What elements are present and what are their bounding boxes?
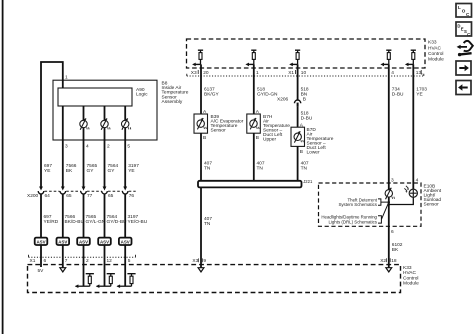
splice sleeve ASV w5	[119, 238, 132, 245]
label B7D	[307, 127, 334, 156]
svg-text:HVAC: HVAC	[403, 270, 417, 276]
svg-text:BN: BN	[301, 91, 308, 97]
label 407 TN (2)	[257, 160, 265, 171]
sensor B39 A/C evaporator temperature sensor	[194, 114, 208, 133]
ground arrow pin7	[60, 268, 66, 272]
bracket headlights DRL	[378, 203, 389, 223]
wire thermistor1 down	[83, 128, 85, 187]
label B8 assembly	[162, 80, 189, 105]
pin labels under B8 box	[65, 144, 130, 150]
connector bracket ticks (top box)	[198, 70, 422, 74]
label E10B	[424, 184, 442, 208]
wire 407 TN (from B39)	[200, 133, 202, 181]
label K33 HVAC control module (top)	[428, 40, 444, 63]
svg-text:2: 2	[86, 258, 89, 264]
svg-text:D-BU: D-BU	[392, 91, 404, 97]
svg-text:J221: J221	[303, 179, 313, 184]
label 518 BN	[301, 86, 309, 97]
svg-text:BK: BK	[66, 168, 73, 174]
connector X200 row	[45, 190, 136, 192]
svg-text:BK/GY: BK/GY	[204, 91, 219, 97]
wire 518 GY/D-GN	[253, 64, 255, 114]
wire pin1 loop to 697 YE	[41, 62, 63, 187]
connector X3 pin 9	[192, 258, 206, 264]
svg-text:X2: X2	[380, 258, 386, 264]
wire 1703 YE	[412, 64, 414, 189]
svg-text:TN: TN	[204, 221, 211, 227]
wire label 697 YE	[44, 163, 52, 174]
wire label 7564 GY	[108, 163, 119, 174]
toolbar icon wiring pointer	[457, 41, 473, 56]
thermistor sensor 2	[101, 118, 110, 129]
X200 terminal w2	[60, 187, 66, 196]
sunload photocell in E10B	[404, 186, 417, 197]
svg-text:X1: X1	[30, 258, 36, 264]
connector X2 pin 18	[380, 258, 397, 264]
svg-text:X206: X206	[277, 97, 289, 103]
wire label 697 YE/RD	[44, 214, 59, 225]
svg-text:1: 1	[256, 70, 259, 76]
svg-text:GY/L-GN: GY/L-GN	[86, 219, 106, 225]
svg-text:76: 76	[129, 193, 135, 199]
svg-text:YE: YE	[128, 168, 134, 174]
pull-down arrow + resistor (pin 12)	[96, 274, 115, 288]
wire to thermistor 3	[124, 106, 126, 120]
splice sleeve ASV w1	[35, 238, 48, 245]
wire label 3197 YE	[128, 163, 139, 174]
label B7H	[263, 114, 290, 143]
wire 407 TN (from B7D)	[297, 146, 299, 181]
pull-down arrow + resistor (pin 2)	[75, 274, 94, 288]
toolbar button LOC	[456, 4, 472, 18]
svg-text:5V: 5V	[38, 268, 45, 274]
inline connector X206 point B	[295, 100, 301, 107]
svg-text:YE: YE	[44, 168, 50, 174]
wire w4 below X200	[104, 196, 106, 238]
signal arrow A1	[192, 63, 200, 67]
svg-text:4: 4	[86, 144, 89, 150]
toolbar button back (left arrow)	[456, 81, 471, 95]
svg-text:Sensor: Sensor	[424, 202, 440, 208]
label 407 TN (4)	[204, 216, 212, 227]
svg-text:Module: Module	[403, 281, 419, 287]
wire label 7565 GY/L-GN	[86, 214, 106, 225]
svg-text:5: 5	[128, 258, 131, 264]
svg-text:Lower: Lower	[307, 150, 320, 156]
svg-text:5: 5	[127, 144, 130, 150]
svg-text:B: B	[203, 135, 206, 141]
page left border	[2, 0, 4, 334]
svg-text:18: 18	[391, 258, 397, 264]
wire 407 TN (from B7H)	[253, 133, 255, 181]
label K33 HVAC control module (bottom)	[403, 265, 419, 287]
splice pack J221	[198, 179, 313, 188]
wire 6137 BK/GY	[200, 64, 202, 114]
svg-text:ASV: ASV	[121, 240, 130, 245]
svg-text:K33: K33	[403, 265, 412, 271]
svg-text:6: 6	[391, 229, 394, 235]
pull-up resistor R4 (pin 4)	[386, 50, 391, 64]
wire label 7564 GY/D-BU	[107, 214, 128, 225]
svg-text:D-BU: D-BU	[301, 116, 313, 122]
wire 407 TN to X3-9	[200, 187, 202, 267]
label 6102 BK	[392, 242, 403, 253]
svg-text:13: 13	[416, 70, 422, 76]
svg-text:4: 4	[416, 177, 419, 183]
svg-text:20: 20	[203, 70, 209, 76]
svg-text:X3: X3	[191, 70, 197, 76]
pull-down arrow + resistor (pin 5)	[117, 274, 136, 288]
label 1703 YE	[416, 86, 427, 97]
wire pin3 697 down	[62, 106, 64, 187]
svg-text:Control: Control	[428, 51, 443, 57]
svg-text:C: C	[467, 32, 470, 37]
svg-text:TN: TN	[204, 165, 211, 171]
svg-text:Lights (DRL) Schematics: Lights (DRL) Schematics	[328, 219, 377, 224]
svg-text:B: B	[303, 97, 306, 103]
svg-text:77: 77	[87, 193, 93, 199]
X200 terminal w4	[102, 187, 108, 196]
svg-text:Control: Control	[403, 275, 418, 281]
svg-text:TN: TN	[257, 165, 264, 171]
wire 734 D-BU	[388, 64, 390, 189]
svg-text:HVAC: HVAC	[428, 45, 442, 51]
svg-text:X3: X3	[192, 258, 198, 264]
svg-text:Logic: Logic	[136, 92, 148, 98]
svg-text:X200: X200	[27, 193, 39, 199]
connector X1 dotted row	[29, 255, 136, 257]
signal arrow A3	[289, 63, 297, 67]
label 518 GY/D-GN	[257, 86, 278, 97]
junction node	[388, 201, 390, 206]
label 407 TN (3)	[301, 160, 309, 171]
A90 logic box U1	[58, 87, 148, 106]
ambient temperature thermistor in E10B	[385, 188, 394, 199]
svg-text:GY: GY	[108, 168, 116, 174]
wire w3 below X200	[83, 196, 85, 238]
svg-text:Assembly: Assembly	[162, 99, 183, 105]
wire label 7566 BK	[66, 163, 77, 174]
label 518 D-BU	[301, 111, 313, 122]
K33 HVAC control module (top) dashed box	[187, 39, 426, 68]
module entry arrow X2-18	[386, 268, 392, 272]
label 6137 BK/GY	[204, 86, 219, 97]
svg-text:System Schematics: System Schematics	[338, 202, 377, 207]
svg-text:B: B	[300, 149, 303, 155]
svg-text:X1: X1	[288, 70, 294, 76]
wire to thermistor 1	[83, 106, 85, 120]
svg-text:YE/O-BU: YE/O-BU	[128, 219, 148, 225]
wire 6102 BK	[388, 226, 390, 267]
wire label 3197 YE/O-BU	[128, 214, 148, 225]
svg-text:Module: Module	[428, 56, 444, 62]
wire w2 below X200	[62, 196, 64, 238]
signal arrow A4	[380, 63, 388, 67]
svg-text:Sensor: Sensor	[211, 128, 227, 134]
svg-text:ASV: ASV	[36, 240, 45, 245]
label X206 B	[277, 97, 306, 103]
svg-text:1: 1	[65, 75, 68, 81]
sensor B7H air temperature sensor duct left upper	[247, 114, 260, 133]
wire thermistor3 down	[124, 128, 126, 187]
pull-up resistor R2 (pin 1)	[251, 50, 256, 64]
svg-text:YE/RD: YE/RD	[44, 219, 59, 225]
reference headlights DRL schematics	[321, 215, 377, 225]
wire thermistor2 down	[104, 128, 106, 187]
svg-text:6: 6	[44, 258, 47, 264]
svg-text:ASV: ASV	[100, 240, 109, 245]
bracket ticks X3-9	[199, 258, 203, 262]
connector dotted line (top box)	[187, 74, 424, 76]
X200 terminal w3	[81, 187, 87, 196]
pull-up resistor R1 (pin X3-20)	[198, 50, 203, 64]
svg-text:65: 65	[108, 193, 114, 199]
svg-text:10: 10	[301, 70, 307, 76]
splice sleeve ASV w2	[57, 238, 70, 245]
svg-text:2: 2	[107, 144, 110, 150]
svg-text:B: B	[256, 135, 259, 141]
wire thermistor to junction	[388, 197, 390, 226]
wire 518 BN	[297, 64, 299, 100]
wire to thermistor 2	[104, 106, 106, 120]
label 734 D-BU	[392, 86, 404, 97]
bracket theft deterrent	[378, 199, 389, 205]
svg-text:YE: YE	[416, 91, 422, 97]
connector X200 label and cavity numbers	[27, 193, 134, 199]
svg-text:ASV: ASV	[58, 240, 67, 245]
connector X1 label and pins	[30, 258, 131, 264]
X200 terminal w5	[122, 187, 128, 196]
svg-text:3: 3	[391, 177, 394, 183]
toolbar button DESC	[456, 22, 472, 37]
pull-up resistor R3 (pin X1-10)	[295, 50, 300, 64]
wire w5 below X200	[124, 196, 126, 238]
wire w1 below X200	[40, 196, 42, 238]
thermistor sensor 3	[122, 118, 131, 129]
label B39	[211, 114, 244, 134]
svg-text:7: 7	[65, 258, 68, 264]
wire label 7566 BK/D-BU	[65, 214, 85, 225]
svg-text:ASV: ASV	[79, 240, 88, 245]
wire label 7565 GY	[87, 163, 98, 174]
svg-text:Upper: Upper	[263, 137, 276, 143]
svg-text:K33: K33	[428, 40, 437, 46]
thermistor sensor 1	[80, 118, 89, 129]
signal arrow A2	[245, 63, 253, 67]
svg-text:GY/D-GN: GY/D-GN	[257, 91, 278, 97]
bracket ticks X2-18	[386, 258, 390, 262]
B8 inside air temperature sensor assembly box	[53, 80, 157, 140]
svg-text:9: 9	[203, 258, 206, 264]
K33 HVAC control module (bottom) dashed box	[28, 265, 401, 293]
svg-text:TN: TN	[301, 165, 308, 171]
X200 terminal w1	[38, 187, 44, 196]
svg-text:BK/D-BU: BK/D-BU	[65, 219, 85, 225]
splice sleeve ASV w3	[77, 238, 90, 245]
E10B ambient light/sunload sensor dashed box	[319, 183, 422, 226]
wire 518 D-BU	[297, 107, 299, 128]
module entry arrow X3-9	[198, 268, 204, 272]
wire photocell down and left to junction	[389, 197, 414, 204]
signal arrow A5	[405, 63, 413, 67]
svg-text:4: 4	[391, 70, 394, 76]
svg-text:GY/D-BU: GY/D-BU	[107, 219, 128, 225]
svg-text:65: 65	[66, 193, 72, 199]
sensor B7D air temperature sensor duct left lower	[291, 127, 305, 146]
svg-text:L: L	[458, 5, 461, 10]
svg-text:BK: BK	[392, 247, 399, 253]
pull-up resistor R5 (pin 13)	[411, 50, 416, 64]
svg-text:3: 3	[65, 144, 68, 150]
svg-text:12: 12	[107, 258, 113, 264]
label 407 TN (1)	[204, 160, 212, 171]
top box pin labels	[191, 70, 422, 76]
toolbar button next (right arrow)	[456, 61, 471, 75]
wires ASV to X1	[41, 245, 125, 286]
svg-text:64: 64	[45, 193, 51, 199]
splice sleeve ASV w4	[98, 238, 111, 245]
svg-text:GY: GY	[87, 168, 95, 174]
reference theft deterrent system schematics	[338, 197, 377, 207]
